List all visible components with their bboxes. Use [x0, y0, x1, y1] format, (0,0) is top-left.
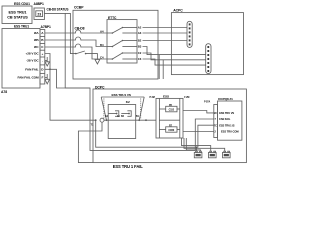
wire ESS to DCPQ pin1	[183, 111, 214, 113]
junction FAN FAIL / +28V	[49, 68, 51, 70]
pin B2	[138, 39, 142, 43]
panel DCPC	[93, 85, 246, 162]
connector A7BP1	[40, 25, 51, 84]
svg-text:P 2M: P 2M	[150, 96, 155, 99]
pin C4	[100, 55, 104, 59]
switch ETTC A	[107, 27, 137, 34]
junction K2 out	[145, 119, 147, 121]
wire sense B stub	[162, 60, 164, 79]
node ESS CDU1 label	[14, 2, 30, 6]
svg-text:C3: C3	[138, 57, 142, 61]
wire ESS pins to module 3	[184, 138, 225, 151]
svg-text:CCBP: CCBP	[74, 5, 84, 9]
svg-text:ØC: ØC	[34, 45, 39, 49]
wire ESS pins to module 1	[186, 138, 200, 151]
relay ESS TRU1 VS label	[112, 93, 131, 97]
connector ACPC J2	[206, 44, 211, 74]
svg-text:C152: C152	[169, 109, 175, 112]
wire pole C to ETTC	[83, 47, 108, 59]
switch ETTC C	[107, 52, 137, 60]
node ESS TRU1 label	[14, 24, 29, 28]
wire B2 to ACPC	[143, 40, 188, 42]
contact K2 B	[121, 111, 131, 117]
pin A2	[138, 26, 142, 30]
wire phase A	[45, 32, 74, 34]
wire R5 left	[159, 108, 165, 110]
svg-text:P 57A: P 57A	[204, 101, 211, 104]
breaker pole C	[74, 44, 83, 48]
svg-text:B2: B2	[138, 39, 142, 43]
svg-text:ESS TRU1: ESS TRU1	[9, 11, 27, 15]
svg-text:-: -	[42, 59, 43, 63]
svg-text:B: B	[41, 38, 44, 42]
svg-text:A8BP1: A8BP1	[34, 2, 45, 6]
svg-text:A1: A1	[117, 115, 121, 118]
wire bus inside ESS	[159, 119, 179, 121]
relay VS linkage dashed	[104, 99, 141, 120]
node A78 label	[1, 90, 7, 94]
module ground block 1	[194, 151, 202, 158]
contact K2 A	[108, 111, 119, 117]
svg-text:CB STATUS: CB STATUS	[7, 16, 28, 20]
wire -28V DC	[45, 57, 47, 62]
svg-text:ESS TRU1: ESS TRU1	[14, 24, 29, 28]
resistor R5	[166, 104, 177, 112]
breaker pole A	[74, 30, 83, 34]
wire pole A to ETTC	[83, 32, 108, 34]
wire K2 bus	[104, 119, 156, 121]
wire VS sense to DCPQ pin3	[96, 120, 214, 147]
wire phase B	[45, 39, 74, 41]
relay K2	[108, 100, 136, 138]
svg-text:2C: 2C	[214, 112, 217, 115]
svg-text:2: 2	[215, 131, 217, 134]
connector A8BP1	[34, 2, 45, 20]
connector ACPC J1	[187, 21, 192, 47]
svg-text:FAN FAIL: FAN FAIL	[25, 67, 38, 71]
svg-text:A: A	[41, 31, 44, 35]
svg-text:ØA: ØA	[34, 31, 39, 35]
module ground block 3	[223, 151, 231, 158]
connector P 57A	[204, 101, 218, 138]
pin B4	[100, 43, 104, 47]
switch ETTC B	[107, 40, 137, 48]
svg-text:B4: B4	[100, 43, 104, 47]
svg-text:ESS TRU VS: ESS TRU VS	[219, 111, 234, 115]
svg-text:CB-D8 STATUS: CB-D8 STATUS	[47, 8, 69, 12]
wire +28V DC	[45, 54, 96, 121]
panel ACPC	[171, 8, 243, 74]
svg-text:C: C	[41, 45, 44, 49]
wire FAN FAIL	[45, 69, 214, 150]
pin 7C ESS TRU1 IS	[214, 123, 235, 127]
module DCPQ8 #1	[218, 97, 242, 140]
svg-text:ACPC: ACPC	[173, 8, 183, 12]
svg-text:D: D	[41, 67, 44, 71]
ground FAN FAIL COM	[45, 79, 50, 84]
svg-text:ESS CDU1: ESS CDU1	[14, 2, 30, 6]
svg-text:A78: A78	[1, 90, 7, 94]
connector F 2M	[180, 96, 190, 138]
svg-text:+: +	[42, 52, 44, 56]
pin A2 K2	[105, 115, 109, 118]
svg-text:C2: C2	[138, 51, 142, 55]
svg-text:7C: 7C	[214, 124, 217, 127]
svg-text:B3: B3	[138, 45, 142, 49]
circuit breaker CB-D8 label	[75, 26, 85, 30]
svg-text:ØB: ØB	[34, 38, 39, 42]
svg-text:B2: B2	[121, 115, 125, 118]
pin A1 K2	[117, 115, 121, 118]
svg-text:23: 23	[37, 12, 41, 16]
svg-text:FAN FAIL COM: FAN FAIL COM	[17, 76, 39, 80]
wire phase C	[45, 46, 74, 48]
wire ESS TRU 1 FAIL	[78, 122, 102, 162]
contactor ETTC	[107, 16, 137, 63]
unit ESS	[156, 95, 183, 138]
svg-text:A2: A2	[138, 26, 142, 30]
svg-text:CB-D8: CB-D8	[75, 26, 85, 30]
svg-text:ESS TRU 1 FAIL: ESS TRU 1 FAIL	[113, 164, 144, 169]
svg-text:ESS TRU COM: ESS TRU COM	[221, 130, 239, 134]
wire R7 left	[159, 129, 165, 131]
pin C3	[138, 57, 142, 61]
svg-text:K2: K2	[126, 100, 130, 104]
svg-text:-28 V DC: -28 V DC	[26, 59, 39, 63]
resistor R7	[166, 124, 177, 132]
wire C3 to ACPC	[143, 59, 206, 65]
wire A2 to ACPC	[143, 27, 188, 29]
breaker aux contact	[75, 51, 97, 60]
ground -28V return	[45, 62, 50, 66]
ground aux contact	[95, 60, 100, 65]
connector P 2M	[150, 96, 160, 138]
relay VS coil bar	[101, 97, 144, 121]
svg-text:T1: T1	[91, 123, 94, 126]
wire bus drop to module 1	[196, 146, 198, 151]
svg-text:C1B0: C1B0	[168, 129, 175, 132]
svg-text:C4: C4	[100, 55, 104, 59]
net label ESS TRU 1 FAIL	[113, 164, 144, 169]
svg-text:F 2M: F 2M	[184, 96, 189, 99]
wire FAN FAIL COM	[45, 74, 47, 79]
svg-text:FAN FAIL: FAN FAIL	[219, 117, 231, 121]
svg-text:B1: B1	[136, 115, 140, 118]
module ground block 2	[209, 151, 217, 158]
pin 7 FAN FAIL	[215, 117, 231, 121]
panel CCBP	[73, 5, 158, 79]
terminal T1	[91, 118, 105, 126]
wire pole B to ETTC	[83, 40, 108, 47]
wire R7 right	[177, 129, 180, 131]
pin A4	[100, 29, 104, 33]
breaker pole B	[74, 37, 83, 41]
svg-text:A3: A3	[138, 31, 142, 35]
svg-text:ESS TRU1 IS: ESS TRU1 IS	[219, 123, 235, 127]
pin A3	[138, 31, 142, 35]
wire CB-D8 STATUS	[44, 13, 75, 53]
junction main bus	[95, 119, 97, 121]
ESS CDU1 box	[2, 6, 32, 24]
wire B3 to ACPC	[143, 47, 206, 55]
pin 2C ESS TRU VS	[214, 111, 234, 115]
wire ESS to DCPQ pin4	[183, 131, 214, 133]
wire R5 right	[177, 108, 180, 110]
ESS TRU1 box	[2, 29, 40, 89]
svg-text:+28 V DC: +28 V DC	[26, 52, 40, 56]
wire branch to fail bus	[65, 13, 90, 88]
wire ESS pins to module 2	[182, 138, 211, 151]
pin C2	[138, 51, 142, 55]
pin B2 K2	[121, 115, 125, 118]
pin 2 ESS TRU COM	[215, 130, 240, 134]
svg-text:ESS TRU1 VS: ESS TRU1 VS	[112, 93, 131, 97]
svg-text:F: F	[41, 76, 43, 80]
wire A3 to ACPC	[143, 32, 188, 34]
net label CB-D8 STATUS	[47, 8, 69, 12]
wire sense A stub	[158, 55, 160, 79]
pin B3	[138, 45, 142, 49]
pin B1 K2	[136, 115, 140, 118]
svg-text:7: 7	[215, 118, 217, 121]
wire C2 to ACPC	[143, 53, 206, 60]
svg-text:A7BP1: A7BP1	[41, 25, 52, 29]
svg-text:A4: A4	[100, 29, 104, 33]
